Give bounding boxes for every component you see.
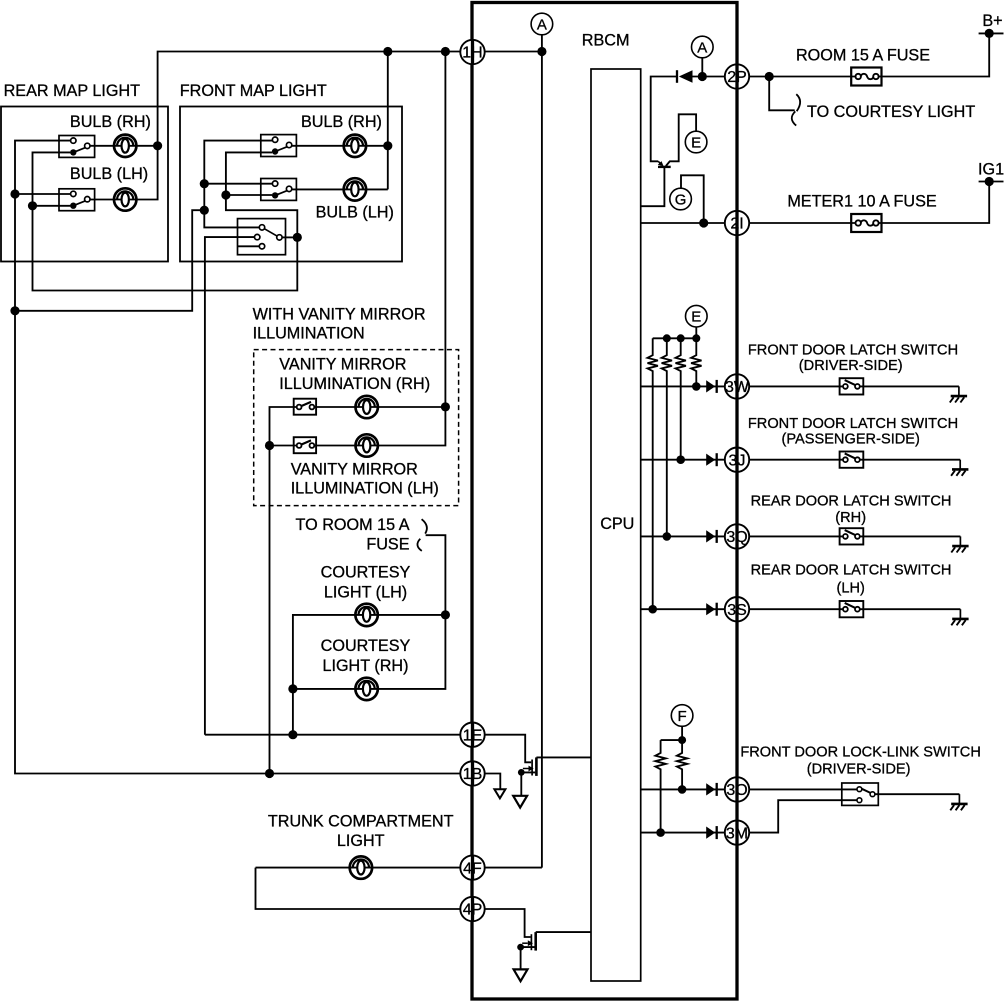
svg-text:TRUNK COMPARTMENT: TRUNK COMPARTMENT: [268, 813, 454, 831]
wire latch switch 3W to ground: [860, 385, 959, 387]
svg-text:(DRIVER-SIDE): (DRIVER-SIDE): [807, 762, 911, 778]
diode D1 at 2P: [676, 70, 678, 83]
connector 2I: [725, 211, 749, 235]
wire main feed bus from rear map light to connector 1H: [158, 52, 461, 146]
svg-text:COURTESY: COURTESY: [321, 637, 411, 655]
resistor R5 (3M pull-up): [655, 740, 665, 833]
connector 3W: [725, 374, 750, 398]
svg-text:(RH): (RH): [835, 510, 866, 526]
diode 3J: [706, 453, 717, 466]
node courtesy LH feed: [441, 610, 450, 619]
connector 2P: [725, 64, 749, 88]
wire Q2 source: [521, 947, 535, 969]
wire 3S row inside RBCM: [641, 608, 726, 610]
wire front switch LH top branch: [204, 183, 272, 185]
wire 4P to MOSFET Q2 gate: [485, 909, 531, 937]
node front bottom junction 2: [221, 190, 230, 199]
diode 3O: [706, 783, 717, 796]
wire front switch RH top terminal riser: [204, 141, 272, 211]
svg-text:WITH VANITY MIRROR: WITH VANITY MIRROR: [253, 306, 426, 324]
svg-text:E: E: [691, 309, 701, 326]
node rear LH bottom junction: [28, 201, 37, 210]
svg-text:ROOM 15 A FUSE: ROOM 15 A FUSE: [796, 47, 930, 65]
node vanity feed on 1B wire: [265, 769, 274, 778]
wire trunk light row 4F: [256, 867, 461, 869]
wire meter fuse to IG1: [878, 182, 989, 224]
wire latch switch 3J to ground: [860, 459, 960, 461]
wire 3S to latch switch: [749, 608, 843, 610]
circled E reference (Q3): [685, 131, 707, 153]
wire rear switch RH bottom terminal to front 3-way switch: [33, 152, 298, 290]
switch rear map LH: [59, 189, 95, 211]
wire 3O to lock-link switch: [749, 788, 856, 790]
wire 3-way switch top terminal: [204, 210, 259, 227]
node on feed bus x445: [441, 47, 450, 56]
wire 1B to ground arrow: [485, 774, 501, 790]
wire latch switch 3Q to ground: [860, 535, 961, 537]
node A1 junction: [537, 47, 546, 56]
wire lock-link switch to ground: [875, 793, 960, 795]
node vanity LH feed: [265, 441, 274, 450]
svg-text:F: F: [678, 708, 687, 725]
switch front map LH: [261, 179, 297, 201]
diode 3Q: [706, 530, 717, 543]
wire 3J to latch switch: [749, 459, 843, 461]
diode 3W: [706, 380, 717, 393]
connector 1B: [460, 761, 484, 785]
node bus R2: [663, 334, 671, 342]
wire courtesy LH row: [293, 615, 446, 689]
svg-text:IG1: IG1: [978, 161, 1004, 179]
wire Q2 drain to CPU: [536, 931, 591, 933]
svg-text:3Q: 3Q: [726, 529, 747, 546]
wire 2I to meter fuse: [749, 222, 856, 224]
svg-text:RBCM: RBCM: [582, 31, 630, 49]
node pull-up 3Q: [663, 532, 672, 541]
node bus F: [678, 736, 686, 744]
wire 3W row inside RBCM: [641, 385, 726, 387]
wire 3-way switch common output: [282, 236, 297, 238]
svg-text:FRONT MAP LIGHT: FRONT MAP LIGHT: [180, 82, 327, 100]
node rear RH bulb output: [153, 141, 162, 150]
node IG1 terminal: [985, 177, 994, 186]
wire latch switch 3S to ground: [860, 608, 961, 610]
wire lock pull-up bus: [661, 739, 683, 741]
wire 1E to MOSFET Q1 gate: [485, 735, 532, 763]
B+ terminal bar: [979, 32, 1004, 34]
wire 2P row to diode and transistor: [651, 77, 676, 162]
bulb trunk compartment light: [350, 856, 372, 878]
wire 3Q to latch switch: [749, 535, 843, 537]
svg-text:CPU: CPU: [600, 515, 634, 533]
svg-text:E: E: [691, 134, 701, 151]
wire front LH bulb row: [292, 188, 388, 190]
wire vanity feed: [270, 407, 297, 774]
connector 3M: [725, 820, 749, 844]
svg-text:LIGHT (LH): LIGHT (LH): [324, 584, 407, 602]
MOSFET Q2: [522, 932, 536, 951]
svg-text:B+: B+: [982, 12, 1002, 30]
fuse METER1 10A: [851, 214, 881, 232]
svg-text:LIGHT: LIGHT: [337, 832, 385, 850]
FRONT MAP LIGHT box: [180, 107, 402, 262]
switch front map RH: [261, 135, 297, 157]
svg-text:BULB (LH): BULB (LH): [70, 165, 148, 183]
wire 4F inside: [485, 867, 542, 869]
wire vanity RH row: [314, 406, 445, 408]
node on feed bus x387: [383, 47, 392, 56]
ground 3J: [951, 460, 968, 476]
node courtesy tap: [765, 72, 774, 81]
circled G reference: [670, 188, 692, 210]
node G junction: [699, 218, 708, 227]
wire vanity mirror feed drop: [444, 52, 446, 407]
resistor R3 (3J pull-up): [676, 338, 686, 459]
resistor R2 (3Q pull-up): [662, 338, 672, 536]
node on 1E wire: [288, 730, 297, 739]
wire rear RH bulb row: [90, 145, 158, 147]
connector 3J: [725, 448, 749, 472]
switch door latch 3W: [840, 378, 864, 394]
switch door lock-link: [842, 783, 879, 805]
connector 3O: [725, 777, 749, 801]
bulb vanity LH: [356, 434, 378, 456]
node 1B branch: [10, 306, 19, 315]
wire 3M to lock-link switch: [749, 800, 856, 832]
wire vanity LH row: [314, 407, 445, 446]
switch door latch 3J: [840, 452, 864, 468]
resistor R1 (3S pull-up): [648, 338, 658, 609]
ground 3W: [950, 386, 967, 402]
wire Q3 base to CPU: [641, 168, 665, 207]
svg-text:BULB (RH): BULB (RH): [301, 113, 382, 131]
svg-text:FRONT DOOR LATCH SWITCH: FRONT DOOR LATCH SWITCH: [748, 342, 958, 358]
node front junction 3: [200, 206, 209, 215]
svg-text:REAR MAP LIGHT: REAR MAP LIGHT: [4, 82, 141, 100]
3-way switch stub terminal: [238, 245, 260, 247]
connector 3S: [725, 597, 749, 621]
3-way door switch box: [238, 219, 286, 255]
svg-text:1B: 1B: [463, 766, 483, 783]
svg-text:4F: 4F: [463, 860, 482, 877]
svg-text:BULB (LH): BULB (LH): [316, 204, 394, 222]
wire G to 2I row: [681, 175, 704, 223]
node pull-up 3W: [692, 382, 701, 391]
wire Q1 source: [521, 772, 535, 795]
svg-text:VANITY MIRROR: VANITY MIRROR: [291, 461, 418, 479]
IG1 terminal bar: [979, 181, 1004, 183]
svg-text:(PASSENGER-SIDE): (PASSENGER-SIDE): [781, 432, 919, 448]
svg-text:VANITY MIRROR: VANITY MIRROR: [279, 356, 406, 374]
bulb front map RH: [344, 135, 366, 157]
node A2 junction: [698, 72, 707, 81]
wire rear switch RH top terminal down left branch to 1B trunk: [15, 141, 460, 774]
node pull-up 3S: [648, 605, 657, 614]
svg-text:REAR DOOR LATCH SWITCH: REAR DOOR LATCH SWITCH: [751, 562, 952, 578]
wire diode to 2P: [693, 76, 726, 78]
ground 3Q: [951, 536, 968, 552]
wire 3-way switch middle terminal and drop to 1E: [205, 237, 255, 735]
wire courtesy light tap: [769, 77, 795, 111]
REAR MAP LIGHT box: [1, 107, 168, 262]
svg-text:2I: 2I: [730, 216, 743, 233]
svg-text:METER1 10 A FUSE: METER1 10 A FUSE: [787, 192, 937, 210]
wire 1H to node A1 inside RBCM: [485, 51, 542, 53]
node pull-up 3J: [676, 455, 685, 464]
wire 2P to room fuse: [749, 76, 856, 78]
wire Q3 emitter to E: [666, 114, 696, 166]
svg-text:3W: 3W: [725, 379, 750, 396]
node 3-way output: [293, 233, 302, 242]
svg-text:3J: 3J: [729, 452, 746, 469]
continuation brace courtesy: [422, 519, 427, 533]
switch vanity RH: [294, 399, 316, 415]
connector 1E: [460, 723, 484, 747]
wire front RH bulb row: [292, 145, 388, 147]
node vanity RH output: [441, 402, 450, 411]
svg-text:ILLUMINATION: ILLUMINATION: [253, 325, 365, 343]
bulb courtesy LH: [355, 604, 377, 626]
switch vanity LH: [294, 437, 316, 453]
svg-text:G: G: [675, 191, 687, 208]
wire rear switch LH top terminal branch: [15, 193, 71, 195]
circled F reference: [671, 705, 693, 727]
node B+ terminal: [985, 29, 994, 38]
svg-text:COURTESY: COURTESY: [321, 564, 411, 582]
vanity mirror dashed box: [254, 350, 459, 506]
svg-text:3S: 3S: [727, 602, 747, 619]
ground lock-link: [950, 794, 967, 810]
svg-text:TO COURTESY LIGHT: TO COURTESY LIGHT: [807, 103, 975, 121]
resistor R4 (3W pull-up): [691, 338, 701, 386]
node Q1 source: [518, 769, 525, 776]
transistor Q3: [658, 166, 671, 168]
wire vanity LH branch: [270, 445, 297, 447]
switch door latch 3S: [840, 601, 864, 617]
svg-text:FRONT DOOR LATCH SWITCH: FRONT DOOR LATCH SWITCH: [748, 416, 958, 432]
bulb vanity RH: [356, 396, 378, 418]
wire 3J row inside RBCM: [641, 459, 726, 461]
bulb front map LH: [344, 178, 366, 200]
bulb courtesy RH: [355, 678, 377, 700]
svg-text:3O: 3O: [726, 782, 747, 799]
wire rear LH bulb row: [90, 146, 158, 200]
node front RH bulb output: [383, 141, 392, 150]
svg-text:3M: 3M: [726, 825, 748, 842]
wire pull-up bus: [653, 337, 697, 339]
switch door latch 3Q: [840, 528, 864, 544]
diode 3S: [706, 603, 717, 616]
wire Q1 drain to CPU: [536, 756, 590, 758]
svg-text:2P: 2P: [727, 69, 747, 86]
node bus E: [692, 334, 700, 342]
svg-text:4P: 4P: [463, 902, 483, 919]
svg-text:REAR DOOR LATCH SWITCH: REAR DOOR LATCH SWITCH: [751, 493, 952, 509]
svg-text:A: A: [537, 16, 547, 33]
3-way switch contacts: [264, 229, 277, 237]
svg-text:(DRIVER-SIDE): (DRIVER-SIDE): [799, 358, 903, 374]
node Q2 source: [517, 944, 524, 951]
connector 3Q: [725, 524, 749, 548]
connector 4P: [460, 897, 484, 921]
node front top junction 1: [200, 179, 209, 188]
RBCM module box: [472, 3, 737, 1000]
node pull-up 3O: [678, 785, 687, 794]
ground arrow Q1: [513, 796, 527, 808]
resistor R6 (3O pull-up): [677, 740, 687, 789]
node bus R3: [677, 334, 685, 342]
svg-text:ILLUMINATION (RH): ILLUMINATION (RH): [279, 375, 430, 393]
wire 3W to latch switch: [749, 385, 843, 387]
connector 1H: [460, 40, 484, 64]
wire 3O row inside RBCM: [641, 788, 726, 790]
wire battery-feed drop to MOSFET drain and 4F: [541, 52, 543, 868]
MOSFET Q1: [523, 757, 537, 776]
bulb rear map LH: [114, 188, 136, 210]
diode 3M: [706, 826, 717, 839]
wire front switch LH bottom branch: [226, 194, 272, 196]
wire room fuse to B+: [878, 33, 989, 76]
node pull-up 3M: [656, 828, 665, 837]
ground arrow Q2: [514, 969, 528, 981]
connector 4F: [460, 855, 484, 879]
wire 3M row inside RBCM: [641, 832, 726, 834]
ground arrow 1B: [494, 789, 505, 798]
wire front bulb RH feed drop: [387, 52, 389, 190]
CPU box: [591, 69, 641, 981]
bulb rear map RH: [114, 135, 136, 157]
svg-text:FUSE: FUSE: [366, 536, 409, 554]
svg-text:1E: 1E: [463, 727, 483, 744]
wire 1B branch to front box: [15, 210, 204, 311]
svg-text:A: A: [697, 39, 707, 56]
svg-text:FRONT DOOR LOCK-LINK SWITCH: FRONT DOOR LOCK-LINK SWITCH: [740, 745, 981, 761]
wire front switch RH bottom to 3-way output: [226, 152, 297, 237]
circled E reference (pull-ups): [686, 305, 708, 327]
wire trunk light return to 4P: [256, 868, 461, 909]
svg-text:TO ROOM 15 A: TO ROOM 15 A: [296, 516, 410, 534]
svg-text:(LH): (LH): [837, 581, 865, 597]
wire 3Q row inside RBCM: [641, 535, 726, 537]
svg-text:BULB (RH): BULB (RH): [70, 113, 151, 131]
wire 2I row: [641, 222, 726, 224]
svg-text:1H: 1H: [462, 45, 482, 62]
svg-text:ILLUMINATION (LH): ILLUMINATION (LH): [291, 479, 439, 497]
node rear LH top junction: [10, 189, 19, 198]
wire rear switch LH bottom terminal branch: [33, 205, 71, 207]
switch rear map RH: [59, 136, 95, 158]
svg-text:LIGHT (RH): LIGHT (RH): [322, 657, 408, 675]
circled A reference (2P): [692, 36, 714, 58]
continuation brace room fuse: [796, 94, 800, 111]
wire 1E row: [205, 734, 460, 736]
ground 3S: [951, 609, 968, 625]
node courtesy RH output: [288, 684, 297, 693]
fuse ROOM 15A: [851, 68, 881, 86]
circled A reference (top): [531, 13, 553, 35]
wire room fuse feed to courtesy lights: [293, 535, 446, 735]
